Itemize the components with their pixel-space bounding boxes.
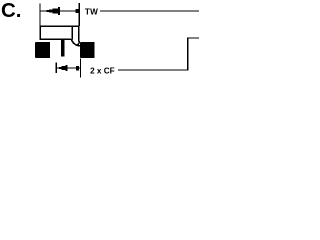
right solder pad [80,42,94,58]
leader step vertical [187,37,188,70]
2xCF dimension: left tick [56,63,57,73]
lead foot curve [77,41,79,45]
center terminal bar [61,40,64,57]
TW dimension line [40,10,79,11]
TW leader line to right edge [100,11,199,12]
terminal lead bend (hook) [71,39,80,46]
component body right edge / tab left edge [72,26,74,39]
2xCF leader line [118,70,188,71]
TW dimension: small right-pointing arrowhead [76,9,79,13]
2xCF dimension: small right-pointing arrowhead [76,66,79,70]
2xCF dimension line [56,68,80,69]
2xCF dimension: left-pointing stepped arrowhead [59,65,68,71]
component body left edge [39,26,41,40]
component body bottom edge [39,39,71,41]
svg-text:TW: TW [85,7,98,16]
svg-text:C.: C. [1,0,22,22]
svg-text:2 x CF: 2 x CF [90,67,115,76]
2xCF dimension: right extension line (from pad) [80,58,81,77]
TW dimension: right extension line [79,3,80,26]
TW dimension: left extension line [39,4,40,27]
component body outline (top edge incl. tab) [39,26,79,28]
terminal tab right edge [78,26,80,42]
TW dimension: large left-pointing stepped arrowhead [47,7,61,15]
leader step top segment [187,37,199,38]
left solder pad [35,42,50,58]
background [0,0,200,85]
